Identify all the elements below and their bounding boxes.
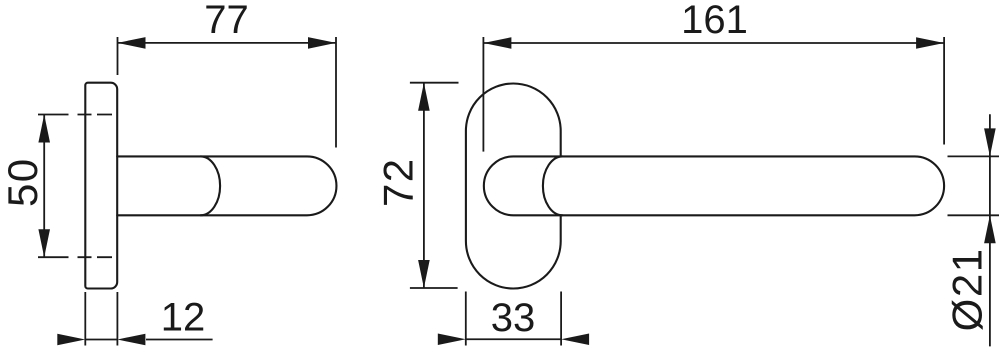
svg-text:Ø21: Ø21 bbox=[944, 247, 991, 331]
svg-text:50: 50 bbox=[0, 157, 46, 207]
svg-text:72: 72 bbox=[375, 157, 422, 207]
svg-text:77: 77 bbox=[204, 0, 249, 42]
svg-text:161: 161 bbox=[681, 0, 748, 42]
svg-text:12: 12 bbox=[161, 296, 206, 340]
svg-text:33: 33 bbox=[491, 296, 536, 340]
